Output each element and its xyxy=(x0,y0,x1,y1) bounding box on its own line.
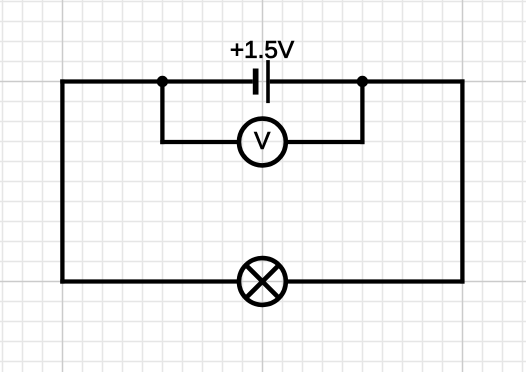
wire branch left vertical (node A down) xyxy=(160,82,164,145)
wire branch left horizontal (to voltmeter) xyxy=(160,140,238,144)
battery B1 positive plate (long thin bar) xyxy=(266,60,270,103)
lamp L1 cross diagonal NE-SW xyxy=(247,266,278,297)
wire bottom-right segment (lamp to right corner) xyxy=(286,279,464,283)
node A (left junction dot) xyxy=(157,76,168,87)
lamp L1 body xyxy=(239,258,286,305)
wire bottom-left segment (left corner to lamp) xyxy=(60,279,238,283)
wire left side xyxy=(60,79,64,283)
lamp L1 cross diagonal NW-SE xyxy=(247,266,278,297)
wire branch right horizontal (voltmeter to right) xyxy=(286,140,364,144)
voltmeter U1 body xyxy=(239,119,286,166)
wire branch right vertical (up to node B) xyxy=(360,82,364,145)
wire top-left segment (left corner to battery negative plate) xyxy=(60,79,253,83)
voltmeter U1 letter "V" xyxy=(254,132,270,149)
node B (right junction dot) xyxy=(357,76,368,87)
battery B1 value label "+1.5V" xyxy=(231,41,294,58)
wire top-right segment (battery positive plate to right corner) xyxy=(270,79,465,83)
wire right side xyxy=(460,79,464,283)
battery B1 negative plate (short thick bar) xyxy=(253,69,259,95)
